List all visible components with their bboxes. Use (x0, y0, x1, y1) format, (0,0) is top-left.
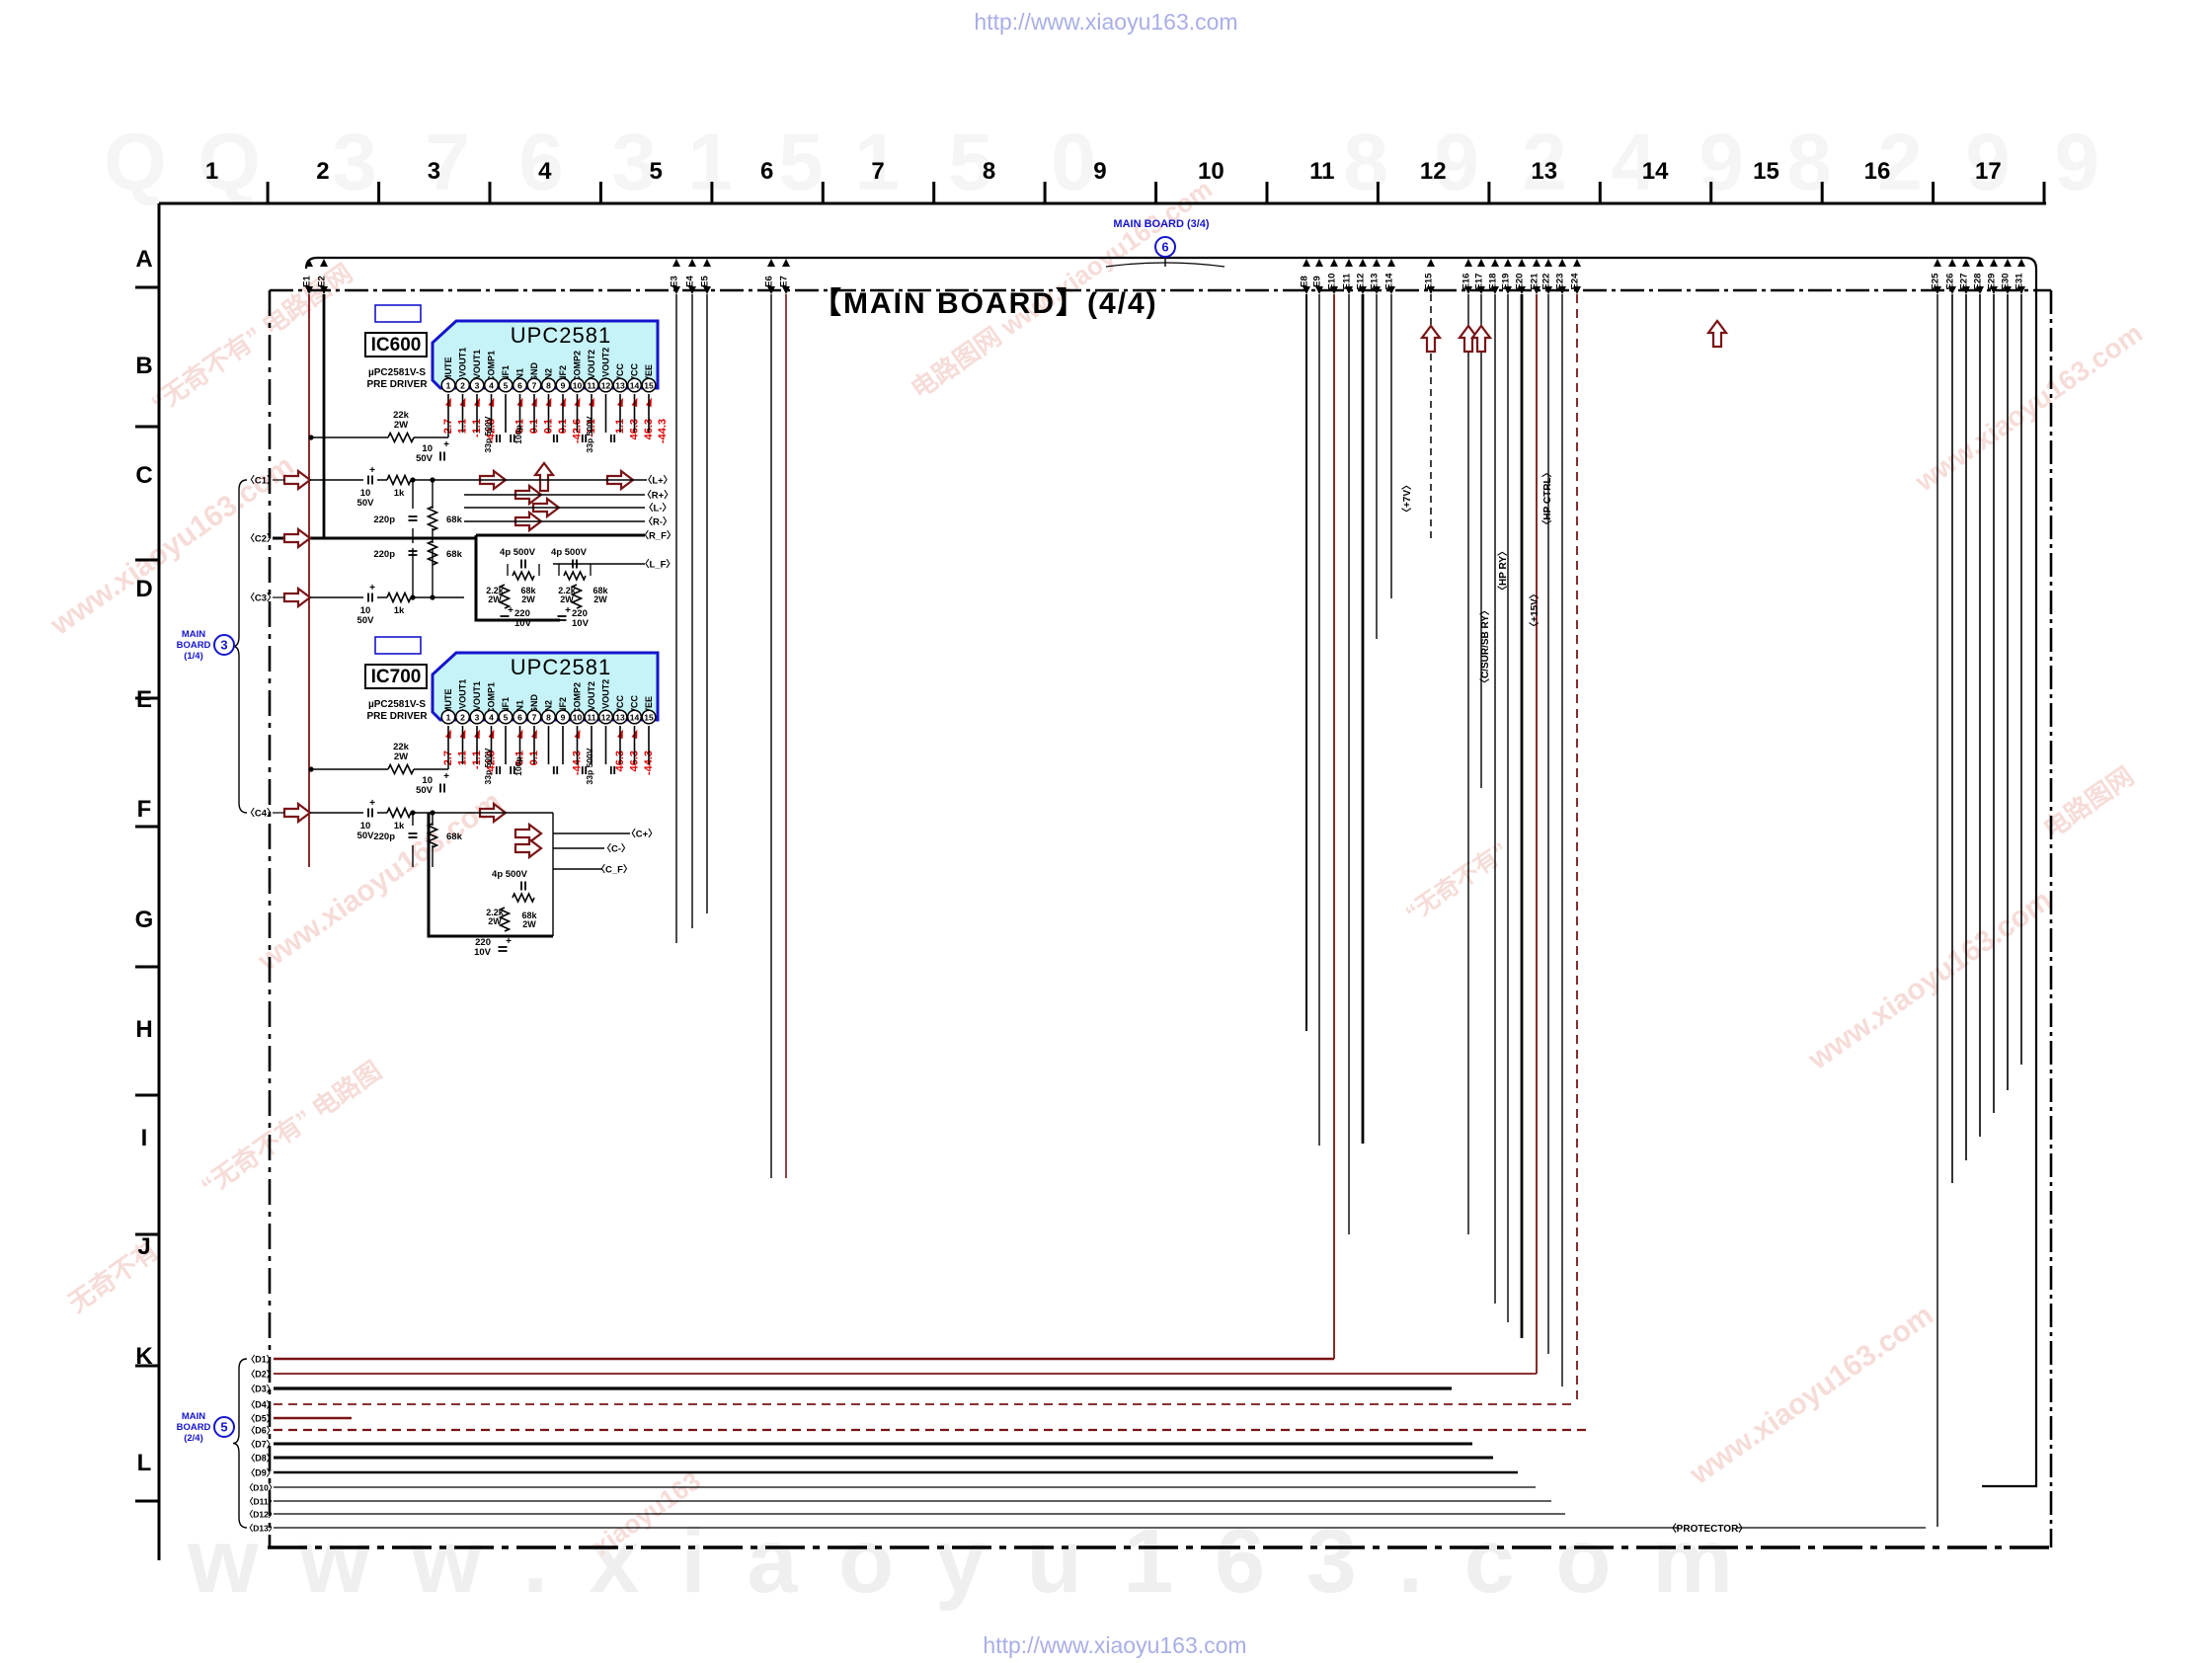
svg-text:4: 4 (489, 713, 494, 723)
svg-text:〈D6〉: 〈D6〉 (246, 1426, 276, 1436)
pin stub wires (447, 726, 449, 764)
svg-text:-VOUT1: -VOUT1 (472, 350, 482, 382)
svg-text:MAIN: MAIN (182, 629, 205, 640)
svg-text:http://www.xiaoyu163.com: http://www.xiaoyu163.com (974, 9, 1237, 35)
IC600 label box (365, 333, 427, 356)
svg-text:COMP1: COMP1 (487, 682, 497, 714)
svg-text:2: 2 (460, 713, 465, 723)
svg-text:4p 500V: 4p 500V (500, 547, 536, 558)
IC IC700 UPC2581 body (433, 653, 658, 720)
board dash-dot border (270, 289, 2051, 292)
svg-text:E1: E1 (302, 275, 313, 286)
svg-text:〈R+〉: 〈R+〉 (642, 490, 672, 502)
svg-text:9: 9 (1698, 118, 1744, 207)
svg-text:9: 9 (561, 713, 566, 723)
svg-text:4: 4 (489, 381, 494, 391)
svg-text:3: 3 (428, 158, 440, 185)
svg-text:〈HP RY〉: 〈HP RY〉 (1496, 546, 1509, 595)
red up arrows below border (1422, 326, 1440, 352)
E1-E31 connector arrows (305, 259, 313, 267)
svg-text:IC600: IC600 (371, 335, 422, 356)
svg-text:〈L_F〉: 〈L_F〉 (640, 559, 675, 571)
svg-text:COMP2: COMP2 (573, 351, 583, 382)
svg-text:10V: 10V (572, 618, 590, 629)
svg-text:〈PROTECTOR〉: 〈PROTECTOR〉 (1667, 1522, 1749, 1535)
input coupling cap 10/50V (284, 589, 310, 606)
svg-text:1k: 1k (394, 821, 405, 831)
svg-text:13: 13 (615, 381, 625, 391)
svg-text:11: 11 (1309, 158, 1334, 185)
big red up arrow C area (535, 463, 553, 491)
svg-text:G: G (135, 907, 154, 933)
outer bus loop line (306, 258, 2036, 1486)
svg-text:〈C1〉: 〈C1〉 (245, 475, 276, 487)
svg-text:7: 7 (871, 158, 884, 185)
svg-text:D: D (135, 576, 152, 602)
svg-text:w w w . x i a o y u 1 6 3 .: w w w . x i a o y u 1 6 3 . c o m (187, 1511, 1741, 1612)
svg-text:+: + (443, 439, 449, 450)
svg-text:5: 5 (778, 118, 824, 207)
svg-text:〈C2〉: 〈C2〉 (245, 533, 276, 545)
svg-text:2W: 2W (522, 919, 536, 929)
svg-text:〈C-〉: 〈C-〉 (601, 843, 630, 855)
svg-text:50V: 50V (416, 785, 434, 796)
svg-text:11: 11 (588, 381, 596, 391)
svg-text:〈C3〉: 〈C3〉 (245, 593, 276, 604)
svg-text:68k: 68k (446, 831, 463, 842)
svg-text:+VOUT1: +VOUT1 (458, 348, 468, 382)
svg-text:µPC2581V-S: µPC2581V-S (368, 367, 426, 378)
svg-text:F: F (137, 796, 152, 823)
svg-text:7: 7 (532, 381, 537, 391)
svg-text:+: + (506, 936, 512, 947)
svg-text:〈D1〉: 〈D1〉 (246, 1355, 276, 1365)
svg-text:50V: 50V (357, 498, 375, 509)
svg-text:8: 8 (1786, 118, 1832, 207)
220p 68k networks (409, 515, 418, 517)
IC600 empty blue box (375, 305, 421, 322)
svg-text:E9: E9 (1312, 276, 1323, 287)
svg-text:12: 12 (601, 713, 611, 723)
circled 5 (214, 1417, 234, 1437)
svg-text:BOARD: BOARD (177, 640, 211, 651)
IC700 empty blue box (375, 637, 421, 654)
svg-text:+: + (443, 771, 449, 782)
svg-text:6: 6 (760, 158, 773, 185)
svg-text:C: C (135, 462, 152, 489)
IC700 pin circles 1-15 (441, 710, 455, 724)
svg-text:〈+7V〉: 〈+7V〉 (1400, 480, 1413, 517)
svg-text:5: 5 (504, 713, 509, 723)
2.2k 68k 2W resistors (501, 585, 510, 608)
svg-text:1k: 1k (394, 488, 405, 499)
svg-text:2W: 2W (394, 752, 408, 762)
svg-text:I: I (141, 1125, 148, 1151)
svg-text:2W: 2W (394, 420, 408, 431)
svg-text:68k: 68k (446, 549, 463, 560)
svg-text:-VOUT1: -VOUT1 (472, 681, 482, 714)
svg-text:15: 15 (644, 713, 654, 723)
svg-text:〈C4〉: 〈C4〉 (245, 808, 276, 820)
svg-text:100p: 100p (513, 425, 523, 443)
svg-text:〈C/SUR/SB RY〉: 〈C/SUR/SB RY〉 (1478, 605, 1491, 688)
svg-text:8: 8 (983, 158, 995, 185)
svg-text:5: 5 (504, 381, 509, 391)
svg-text:2W: 2W (488, 594, 502, 604)
input coupling cap 10/50V (284, 471, 310, 489)
svg-text:2W: 2W (593, 594, 607, 604)
svg-text:1: 1 (205, 158, 218, 185)
svg-text:〈R-〉: 〈R-〉 (643, 516, 671, 528)
svg-text:2: 2 (460, 381, 465, 391)
svg-text:〈C+〉: 〈C+〉 (626, 829, 657, 840)
circled 3 (214, 635, 234, 655)
svg-text:10V: 10V (474, 947, 492, 958)
svg-text:〈D8〉: 〈D8〉 (246, 1454, 276, 1464)
svg-text:11: 11 (588, 713, 596, 723)
svg-text:4p 500V: 4p 500V (492, 869, 528, 880)
ruler left line (158, 203, 161, 1560)
220 10V electro caps (501, 615, 510, 617)
svg-text:4: 4 (538, 158, 552, 185)
svg-text:〈+15V〉: 〈+15V〉 (1528, 589, 1540, 632)
signal rows to channel (464, 479, 647, 481)
svg-text:15: 15 (644, 381, 654, 391)
svg-text:UPC2581: UPC2581 (511, 655, 611, 679)
svg-text:〈D5〉: 〈D5〉 (246, 1414, 276, 1424)
svg-text:3: 3 (332, 118, 377, 207)
svg-text:+: + (369, 465, 375, 476)
svg-text:5: 5 (650, 158, 663, 185)
svg-text:+: + (508, 605, 513, 616)
svg-text:BOARD: BOARD (177, 1422, 211, 1433)
svg-text:220p: 220p (373, 515, 395, 525)
svg-text:14: 14 (630, 381, 640, 391)
svg-text:〈R_F〉: 〈R_F〉 (640, 530, 676, 542)
svg-text:(1/4): (1/4) (184, 651, 203, 662)
input net vertical joins (412, 480, 414, 509)
svg-text:B: B (135, 353, 152, 379)
svg-text:〈D3〉: 〈D3〉 (246, 1385, 276, 1394)
svg-text:3: 3 (220, 638, 227, 653)
svg-text:0: 0 (1051, 118, 1096, 207)
svg-text:COMP1: COMP1 (487, 351, 497, 382)
svg-text:PRE DRIVER: PRE DRIVER (366, 711, 428, 722)
svg-text:-VOUT2: -VOUT2 (587, 681, 596, 714)
svg-text:6: 6 (1161, 240, 1168, 255)
svg-text:+VOUT2: +VOUT2 (601, 679, 611, 714)
svg-text:〈D7〉: 〈D7〉 (246, 1440, 276, 1450)
svg-text:10: 10 (573, 713, 583, 723)
svg-text:16: 16 (1864, 158, 1891, 185)
svg-text:2: 2 (316, 158, 329, 185)
svg-text:9: 9 (561, 381, 566, 391)
svg-text:J: J (137, 1233, 150, 1260)
input coupling cap 10/50V (284, 804, 310, 822)
svg-text:〈D9〉: 〈D9〉 (246, 1468, 276, 1478)
svg-text:220p: 220p (373, 831, 395, 842)
svg-text:7: 7 (532, 713, 537, 723)
svg-text:12: 12 (1420, 158, 1447, 185)
svg-text:E7: E7 (779, 276, 790, 287)
pin stub wires (447, 394, 449, 433)
svg-text:K: K (135, 1343, 153, 1370)
svg-text:15: 15 (1753, 158, 1779, 185)
svg-text:+: + (565, 605, 571, 616)
svg-text:〈D10〉: 〈D10〉 (245, 1483, 277, 1493)
svg-text:〈HP CTRL〉: 〈HP CTRL〉 (1540, 467, 1553, 529)
svg-text:9: 9 (1093, 158, 1106, 185)
svg-text:3: 3 (475, 381, 480, 391)
svg-text:〈L+〉: 〈L+〉 (643, 475, 672, 487)
svg-text:4p 500V: 4p 500V (551, 547, 588, 558)
svg-text:8: 8 (1343, 118, 1388, 207)
svg-text:9: 9 (2054, 118, 2099, 207)
circled 6 (1155, 237, 1175, 257)
svg-text:PRE DRIVER: PRE DRIVER (366, 379, 428, 390)
svg-text:68k: 68k (446, 515, 463, 525)
svg-text:50V: 50V (357, 615, 375, 626)
svg-text:6: 6 (517, 381, 522, 391)
svg-text:10: 10 (1198, 158, 1224, 185)
svg-text:33p 500V: 33p 500V (483, 416, 493, 452)
thick joining lines C network (476, 538, 560, 620)
IC700 label box (365, 665, 427, 688)
brace main board 1/4 (233, 480, 247, 813)
svg-text:1: 1 (446, 713, 451, 723)
svg-text:100p: 100p (513, 756, 523, 775)
svg-text:1: 1 (687, 118, 733, 207)
IC600 pin circles 1-15 (441, 378, 455, 392)
svg-text:6: 6 (517, 713, 522, 723)
svg-text:+: + (369, 798, 375, 809)
svg-text:E6: E6 (764, 276, 775, 287)
svg-text:5: 5 (220, 1420, 227, 1435)
svg-text:A: A (135, 246, 152, 273)
svg-text:13: 13 (615, 713, 625, 723)
mid red arrows row1 (480, 471, 506, 489)
svg-text:8: 8 (546, 381, 551, 391)
svg-text:E8: E8 (1300, 276, 1310, 287)
svg-text:µPC2581V-S: µPC2581V-S (368, 699, 426, 710)
svg-text:〈L-〉: 〈L-〉 (644, 503, 671, 515)
svg-text:E5: E5 (700, 275, 711, 286)
svg-text:MAIN BOARD (3/4): MAIN BOARD (3/4) (1113, 218, 1210, 230)
svg-text:http://www.xiaoyu163.com: http://www.xiaoyu163.com (983, 1632, 1246, 1658)
svg-text:Q: Q (104, 118, 167, 207)
D bus wires (274, 1358, 1334, 1361)
svg-text:〈D4〉: 〈D4〉 (246, 1400, 276, 1410)
svg-text:+VOUT1: +VOUT1 (458, 679, 468, 714)
svg-text:13: 13 (1531, 158, 1557, 185)
svg-text:E: E (136, 686, 152, 713)
svg-text:1: 1 (446, 381, 451, 391)
svg-text:33p 500V: 33p 500V (483, 748, 493, 784)
svg-text:【MAIN BOARD】(4/4): 【MAIN BOARD】(4/4) (812, 287, 1158, 320)
resistor 1k (387, 476, 411, 485)
svg-text:UPC2581: UPC2581 (511, 323, 611, 348)
svg-text:H: H (135, 1016, 152, 1043)
ruler top line (159, 202, 2046, 205)
svg-text:220p: 220p (373, 549, 395, 560)
resistor 1k (387, 809, 411, 818)
svg-text:1k: 1k (394, 605, 405, 616)
svg-text:50V: 50V (357, 831, 375, 841)
svg-text:IC700: IC700 (371, 667, 422, 687)
svg-text:10: 10 (573, 381, 583, 391)
svg-text:+: + (369, 583, 375, 594)
svg-text:E3: E3 (670, 276, 680, 287)
svg-text:14: 14 (630, 713, 640, 723)
svg-text:-44.3: -44.3 (657, 419, 669, 443)
svg-text:+VOUT2: +VOUT2 (601, 348, 611, 382)
mid red arrows row2 (480, 804, 506, 822)
svg-text:〈D2〉: 〈D2〉 (246, 1370, 276, 1380)
svg-text:〈D13〉: 〈D13〉 (245, 1524, 277, 1534)
svg-text:33p 500V: 33p 500V (585, 416, 594, 452)
resistor 1k (387, 594, 411, 602)
svg-text:2W: 2W (521, 594, 535, 604)
ruler left ticks (135, 286, 159, 289)
svg-text:14: 14 (1642, 158, 1669, 185)
svg-text:COMP2: COMP2 (573, 682, 583, 714)
svg-text:MAIN: MAIN (182, 1411, 205, 1422)
svg-text:〈D11〉: 〈D11〉 (245, 1497, 276, 1507)
svg-text:E2: E2 (317, 276, 328, 287)
svg-text:2W: 2W (560, 594, 574, 604)
svg-text:8: 8 (546, 713, 551, 723)
svg-text:E4: E4 (685, 275, 696, 286)
ruler top ticks (267, 182, 270, 203)
svg-text:〈D12〉: 〈D12〉 (245, 1510, 277, 1520)
IC IC600 UPC2581 body (433, 321, 658, 388)
E vertical wires (308, 294, 310, 867)
C2 thick line (273, 537, 476, 540)
svg-text:L: L (137, 1450, 152, 1476)
svg-text:50V: 50V (416, 453, 434, 464)
svg-text:17: 17 (1975, 158, 2002, 185)
svg-text:(2/4): (2/4) (184, 1433, 203, 1444)
svg-text:12: 12 (601, 381, 611, 391)
svg-text:3: 3 (475, 713, 480, 723)
svg-text:-VOUT2: -VOUT2 (587, 350, 596, 382)
svg-text:33p 500V: 33p 500V (585, 748, 594, 784)
brace main board 2/4 (233, 1359, 247, 1528)
